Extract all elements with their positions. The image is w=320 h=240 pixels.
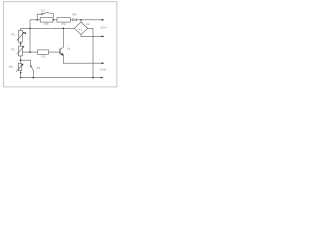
svg-text:P3: P3 bbox=[9, 65, 13, 69]
svg-text:S2: S2 bbox=[37, 66, 41, 70]
svg-text:Gl: Gl bbox=[86, 22, 89, 26]
svg-text:12V ~: 12V ~ bbox=[100, 26, 108, 30]
svg-text:P1: P1 bbox=[11, 47, 15, 51]
svg-text:R2: R2 bbox=[62, 22, 66, 26]
svg-text:Gnd: Gnd bbox=[100, 68, 106, 72]
svg-text:Rb: Rb bbox=[45, 22, 49, 26]
svg-text:S1: S1 bbox=[41, 8, 45, 12]
svg-text:D4: D4 bbox=[72, 12, 76, 16]
svg-text:K1: K1 bbox=[79, 27, 83, 31]
svg-text:T1: T1 bbox=[67, 47, 71, 51]
svg-text:P2: P2 bbox=[11, 33, 15, 37]
svg-text:R1: R1 bbox=[42, 54, 46, 58]
